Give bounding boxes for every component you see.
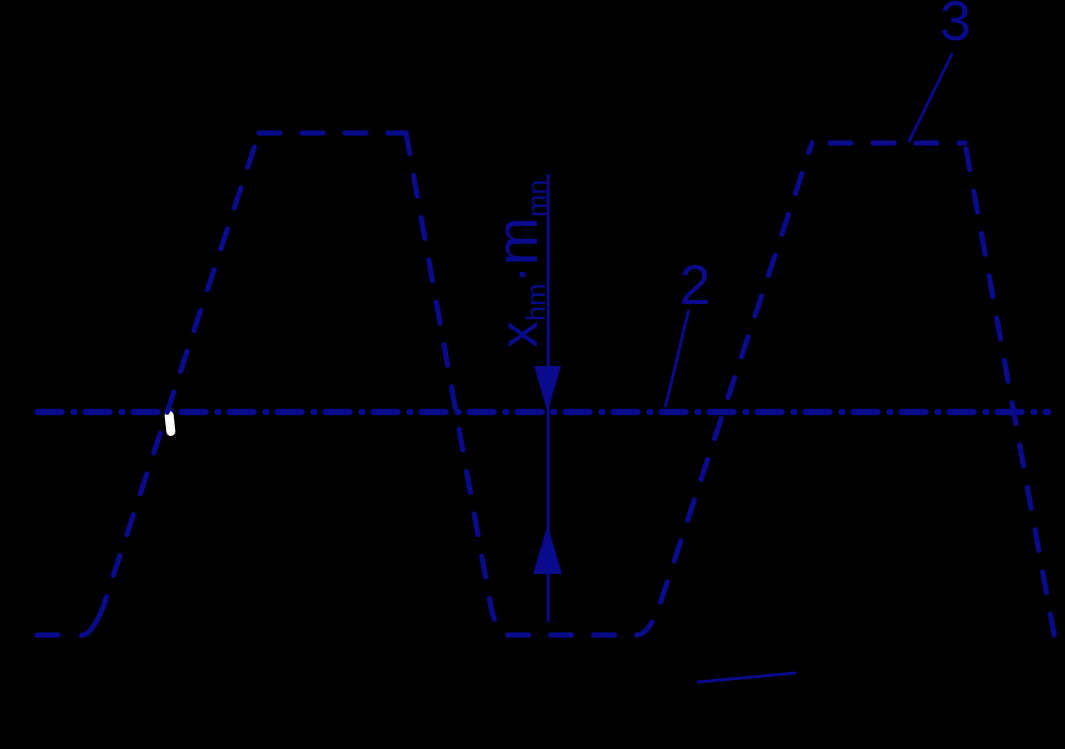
svg-text:2: 2 [679,253,710,316]
svg-text:3: 3 [940,0,971,52]
